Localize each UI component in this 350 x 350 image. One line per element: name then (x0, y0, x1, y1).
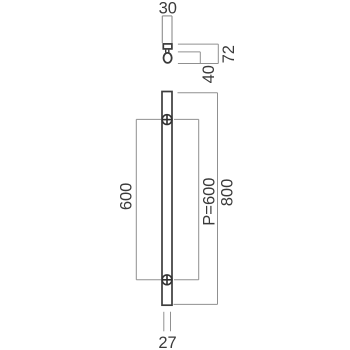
mount plate (side view square) (163, 44, 172, 49)
handle bar (front view) (162, 92, 172, 306)
post base ellipse (side view) (164, 53, 172, 63)
svg-text:P=600: P=600 (200, 178, 218, 226)
dim P=600 bracket (right) (174, 119, 199, 279)
dim 600 bracket (left) (136, 119, 162, 279)
dim bracket 72 (178, 44, 218, 63)
svg-text:30: 30 (159, 0, 177, 18)
top post screw (162, 114, 172, 124)
svg-text:72: 72 (220, 45, 238, 63)
dim 27 extension lines (164, 312, 171, 332)
dim bracket 40 (178, 52, 218, 64)
bar profile (side view, light outline) (162, 16, 172, 43)
post neck (side view) (166, 50, 169, 53)
svg-text:40: 40 (200, 65, 218, 83)
svg-text:800: 800 (218, 179, 236, 207)
dim 800 bracket (right outer) (174, 93, 218, 305)
bottom post screw (162, 275, 172, 285)
svg-text:27: 27 (158, 334, 176, 350)
svg-text:600: 600 (118, 183, 136, 211)
